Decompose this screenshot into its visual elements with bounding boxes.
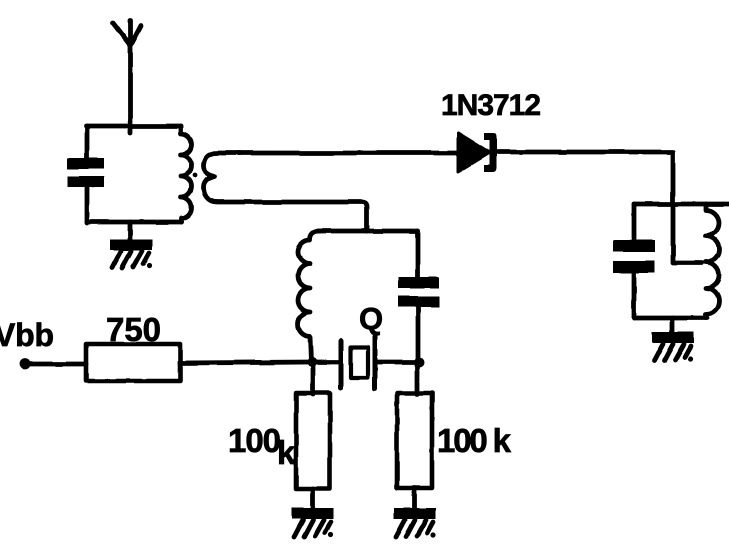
node B junction dot xyxy=(414,357,424,367)
svg-text:750: 750 xyxy=(106,311,161,348)
right tank top wire xyxy=(634,202,729,207)
middle tank right wire xyxy=(416,231,421,278)
tank 1 left lower wire xyxy=(85,185,90,223)
node A junction dot xyxy=(307,357,317,367)
resistor R2 xyxy=(296,393,330,489)
resistor R1 xyxy=(86,344,180,381)
wire secondary to diode xyxy=(238,151,458,156)
svg-text:1N3712: 1N3712 xyxy=(441,89,541,122)
right tank left wire xyxy=(632,204,637,242)
ground G2 xyxy=(292,508,334,538)
capacitor C3 xyxy=(613,240,655,273)
wire right tank to ground xyxy=(670,318,675,334)
inductor L4 xyxy=(706,204,719,318)
wire R1 to node A xyxy=(180,362,312,363)
wire node A to R2 xyxy=(311,362,316,394)
tank 1 left wire xyxy=(85,126,90,161)
resistor R3 xyxy=(397,393,432,488)
ground G4 xyxy=(652,332,694,362)
capacitor C2 xyxy=(398,277,439,307)
Vbb terminal xyxy=(20,359,31,370)
wire R2 to ground xyxy=(311,489,316,509)
crystal Q xyxy=(312,336,418,389)
svg-text:k: k xyxy=(277,434,296,471)
ground G1 xyxy=(110,239,152,269)
inductor L2 secondary xyxy=(204,153,368,231)
wire tank1 to ground xyxy=(128,222,133,240)
tank 1 bottom wire xyxy=(87,220,181,225)
wire R3 to ground xyxy=(412,488,417,509)
wire diode to right tank xyxy=(496,152,702,263)
wire node B to R3 xyxy=(415,362,420,394)
tank 1 top wire xyxy=(86,124,181,129)
svg-text:100: 100 xyxy=(228,422,281,459)
wire C2 to node B xyxy=(416,305,421,362)
diode D1 1N3712 xyxy=(458,133,493,172)
right tank left lower wire xyxy=(632,271,637,318)
ground G3 xyxy=(394,508,436,538)
right tank bottom wire xyxy=(634,316,707,321)
transformer core dot xyxy=(193,173,198,178)
svg-text:Q: Q xyxy=(359,301,383,336)
svg-text:Vbb: Vbb xyxy=(0,317,54,353)
wire Vbb to R1 xyxy=(27,362,86,367)
middle tank top wire xyxy=(318,229,418,234)
capacitor C1 xyxy=(67,158,104,187)
inductor L3 xyxy=(298,231,320,362)
svg-text:100 k: 100 k xyxy=(437,422,512,459)
label 100k left xyxy=(228,422,296,471)
antenna xyxy=(113,21,141,133)
inductor L1 xyxy=(181,126,192,222)
